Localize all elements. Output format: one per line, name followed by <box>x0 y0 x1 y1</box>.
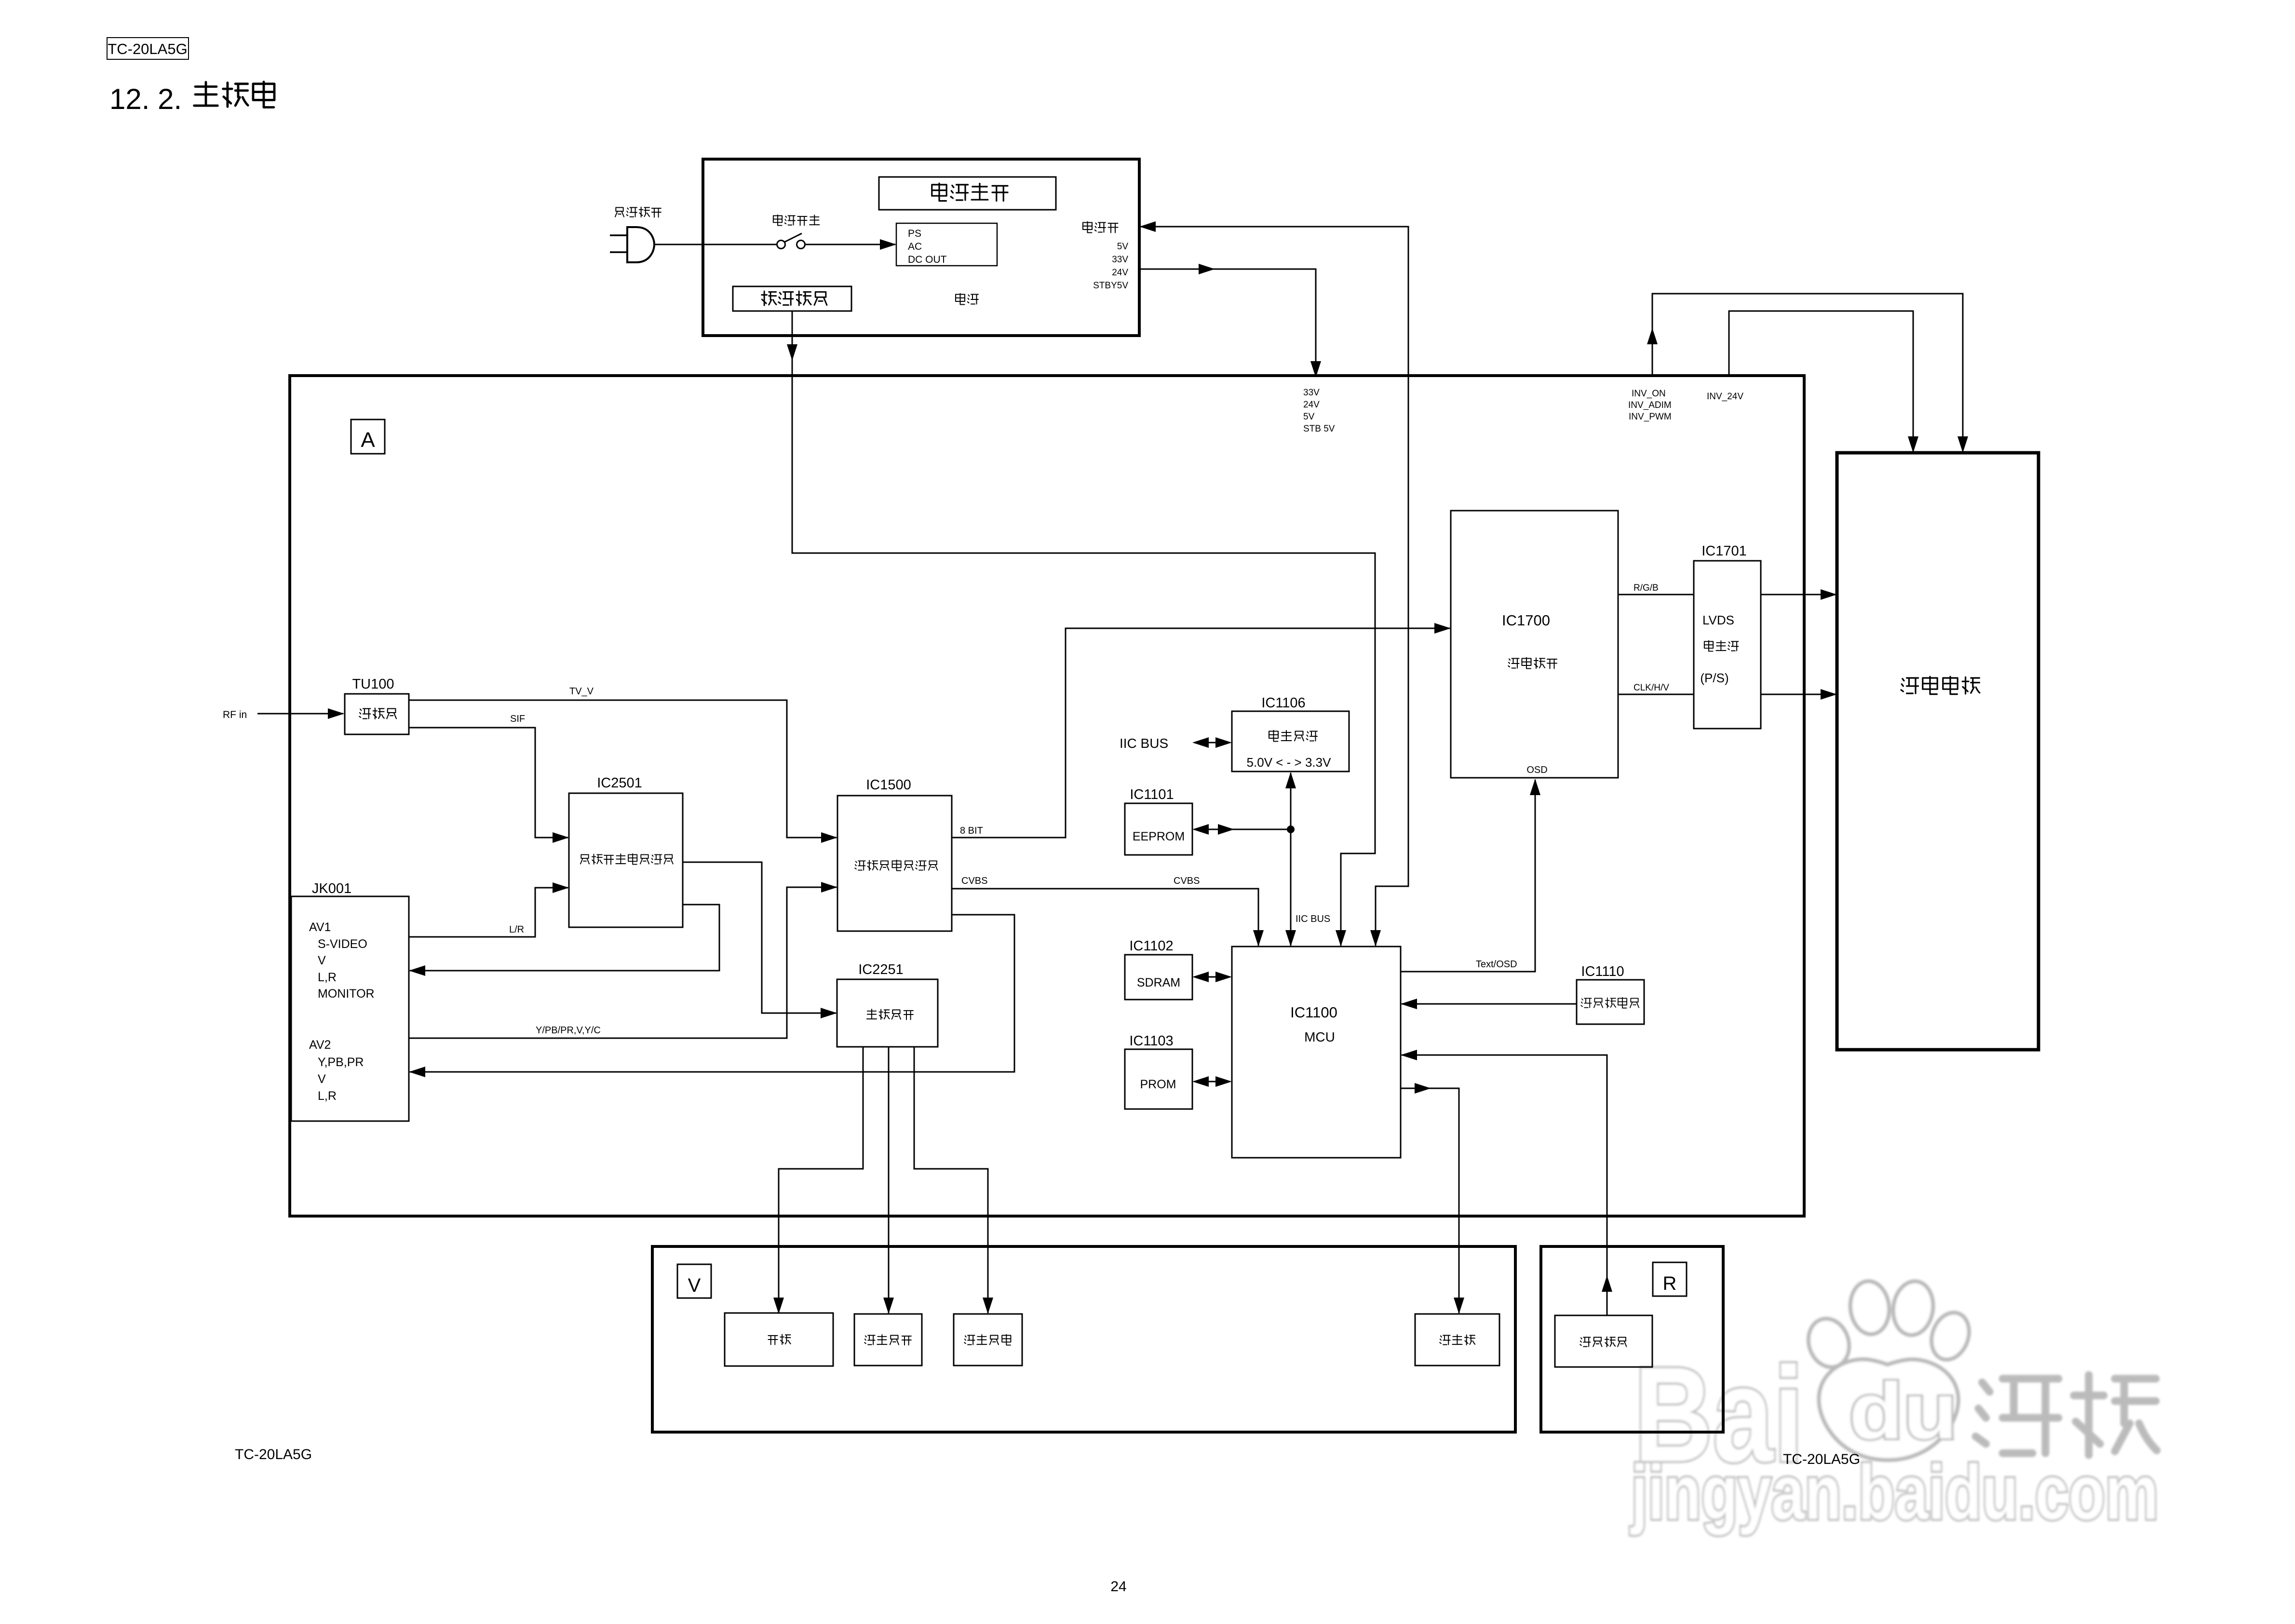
svg-text:IC2251: IC2251 <box>858 962 904 977</box>
SDRAM IC1102 box <box>1125 955 1192 1000</box>
svg-text:24V: 24V <box>1303 400 1320 410</box>
svg-text:IC1100: IC1100 <box>1290 1004 1337 1021</box>
svg-text:IC1701: IC1701 <box>1701 543 1747 559</box>
headphone box <box>725 1313 833 1366</box>
svg-text:IC1500: IC1500 <box>866 777 911 793</box>
svg-text:SIF: SIF <box>510 714 525 724</box>
svg-text:L,R: L,R <box>318 971 337 984</box>
svg-text:Text/OSD: Text/OSD <box>1476 959 1517 970</box>
LCD driver IC1700 box <box>1451 511 1618 778</box>
AC input label <box>615 207 624 217</box>
svg-text:33V: 33V <box>1112 255 1128 265</box>
IIC bus vertical <box>1290 773 1292 946</box>
wires IC2251 to speakers <box>779 1047 863 1313</box>
board R outer box <box>1541 1246 1723 1432</box>
EEPROM IC1101 box <box>1125 803 1192 855</box>
svg-text:OSD: OSD <box>1526 765 1547 775</box>
model label box TC-20LA5G <box>107 38 189 59</box>
wire audio IC2501 to IC2251 <box>683 862 836 1013</box>
svg-text:STB 5V: STB 5V <box>1303 424 1335 434</box>
wire CVBS to MCU <box>952 889 1258 946</box>
speaker right box <box>954 1314 1022 1366</box>
wire key control to MCU <box>792 311 1375 946</box>
wire AC plug to switch <box>654 244 776 245</box>
sound processor IC2501 box <box>569 793 683 927</box>
svg-text:SDRAM: SDRAM <box>1137 976 1180 989</box>
wire EEPROM to IIC <box>1201 829 1291 830</box>
svg-text:IC1103: IC1103 <box>1129 1033 1173 1049</box>
svg-text:S-VIDEO: S-VIDEO <box>318 937 367 951</box>
svg-text:CLK/H/V: CLK/H/V <box>1633 683 1669 693</box>
svg-text:(P/S): (P/S) <box>1700 671 1728 685</box>
wire switch to PS box <box>805 244 895 245</box>
svg-text:AV2: AV2 <box>309 1038 331 1052</box>
svg-text:JK001: JK001 <box>312 881 351 896</box>
svg-text:IC1102: IC1102 <box>1129 938 1173 954</box>
wire Text/OSD to IC1700 <box>1401 780 1535 972</box>
svg-text:jingyan.baidu.com: jingyan.baidu.com <box>1630 1449 2159 1535</box>
board A outer box <box>290 376 1804 1216</box>
wire power-on (MCU to PSU) <box>1140 227 1408 946</box>
svg-text:AC: AC <box>908 241 922 252</box>
svg-text:DC OUT: DC OUT <box>908 254 947 265</box>
LCD panel box <box>1837 453 2038 1050</box>
svg-text:INV_ADIM: INV_ADIM <box>1628 400 1672 410</box>
power label <box>956 294 965 305</box>
wire LVDS to panel upper <box>1761 594 1836 595</box>
tuner TU100 box <box>345 694 409 734</box>
board R tag box <box>1653 1262 1687 1296</box>
svg-text:R/G/B: R/G/B <box>1633 583 1659 593</box>
svg-text:L/R: L/R <box>509 924 524 935</box>
svg-text:L,R: L,R <box>318 1089 337 1103</box>
PROM IC1103 box <box>1125 1049 1192 1109</box>
svg-text:INV_PWM: INV_PWM <box>1629 412 1672 422</box>
wire voltage bundle to board A <box>1140 269 1316 377</box>
jack block JK001 box <box>291 896 409 1121</box>
svg-text:INV_24V: INV_24V <box>1707 392 1743 402</box>
board A tag box <box>351 420 385 454</box>
svg-text:IC2501: IC2501 <box>597 775 642 791</box>
wire SIF <box>409 728 568 838</box>
svg-text:PS: PS <box>908 228 921 239</box>
svg-text:CVBS: CVBS <box>1174 876 1200 886</box>
svg-text:24V: 24V <box>1112 268 1128 278</box>
wire INV_24V to panel <box>1729 311 1913 452</box>
wire R/G/B <box>1618 594 1694 595</box>
wire IR to MCU <box>1402 1055 1607 1315</box>
svg-text:Y,PB,PR: Y,PB,PR <box>318 1056 364 1069</box>
speaker left box <box>854 1314 922 1366</box>
svg-text:IC1110: IC1110 <box>1581 964 1624 979</box>
wire Y/PB/PR to IC1500 <box>409 887 837 1038</box>
wire temp sensor to MCU <box>1402 1003 1577 1005</box>
key control box <box>733 286 851 311</box>
wire RF in <box>257 713 343 715</box>
svg-text:CVBS: CVBS <box>961 876 987 886</box>
svg-text:TU100: TU100 <box>352 677 394 692</box>
svg-text:33V: 33V <box>1303 388 1320 398</box>
svg-text:TV_V: TV_V <box>569 686 594 697</box>
svg-text:IC1101: IC1101 <box>1130 787 1174 802</box>
power switch symbol <box>777 241 785 249</box>
IR control box <box>1555 1315 1652 1367</box>
power switch label <box>773 215 782 226</box>
svg-text:V: V <box>318 954 326 967</box>
wire monitor out IC2501 to JK001 <box>410 905 719 971</box>
svg-text:Y/PB/PR,V,Y/C: Y/PB/PR,V,Y/C <box>536 1025 601 1036</box>
svg-text:du: du <box>1849 1367 1957 1455</box>
svg-text:MCU: MCU <box>1304 1029 1335 1044</box>
svg-text:24: 24 <box>1110 1579 1126 1595</box>
wire SDRAM to MCU <box>1201 976 1225 978</box>
power-on label <box>1083 222 1092 233</box>
LVDS IC1701 box <box>1694 561 1761 729</box>
watermark chars jingyan <box>1976 1379 2059 1453</box>
video processor IC1500 box <box>837 796 952 931</box>
svg-text:A: A <box>361 428 375 452</box>
wire MCU to indicator <box>1401 1088 1459 1313</box>
power unit title box <box>879 177 1056 210</box>
svg-text:IC1700: IC1700 <box>1502 612 1550 629</box>
watermark paw toes <box>1802 1313 1855 1372</box>
svg-text:V: V <box>318 1072 326 1086</box>
IIC junction dot <box>1287 826 1295 833</box>
power supply outer box <box>703 159 1139 336</box>
wire CLK/H/V <box>1618 694 1694 695</box>
svg-text:TC-20LA5G: TC-20LA5G <box>235 1447 312 1462</box>
wire L/R to IC2501 <box>409 888 568 937</box>
svg-text:R: R <box>1663 1273 1677 1294</box>
watermark paw pad <box>1819 1359 1958 1460</box>
svg-text:IC1106: IC1106 <box>1261 695 1305 711</box>
AC plug icon <box>610 235 627 252</box>
svg-text:STBY5V: STBY5V <box>1093 281 1128 291</box>
wire PROM to MCU <box>1201 1081 1225 1083</box>
board V tag box <box>677 1264 711 1298</box>
svg-text:IIC BUS: IIC BUS <box>1296 914 1330 924</box>
svg-text:LVDS: LVDS <box>1702 613 1734 627</box>
wire AV2 return IC1500 to JK001 <box>410 915 1014 1072</box>
wire TV_V <box>409 700 837 838</box>
MCU IC1100 box <box>1232 947 1401 1158</box>
temp sensor IC1110 box <box>1577 980 1644 1024</box>
wire 8BIT to IC1700 <box>952 628 1450 838</box>
svg-text:TC-20LA5G: TC-20LA5G <box>108 41 187 57</box>
svg-text:12. 2.: 12. 2. <box>109 83 182 115</box>
audio amp IC2251 box <box>837 979 938 1047</box>
svg-text:IIC BUS: IIC BUS <box>1120 736 1168 751</box>
board V outer box <box>652 1246 1515 1432</box>
svg-text:V: V <box>688 1275 701 1296</box>
svg-text:5.0V < - > 3.3V: 5.0V < - > 3.3V <box>1247 755 1332 770</box>
wire LVDS to panel lower <box>1761 694 1836 695</box>
PS AC DCOUT box <box>896 223 997 266</box>
svg-text:TC-20LA5G: TC-20LA5G <box>1783 1451 1860 1467</box>
svg-text:5V: 5V <box>1303 412 1315 422</box>
svg-text:AV1: AV1 <box>309 920 331 934</box>
level shifter IC1106 box <box>1232 711 1349 771</box>
svg-text:INV_ON: INV_ON <box>1632 389 1666 399</box>
svg-text:RF in: RF in <box>223 709 247 720</box>
svg-text:EEPROM: EEPROM <box>1133 830 1185 843</box>
wire INV_ON/ADIM/PWM to panel <box>1652 294 1963 452</box>
svg-text:5V: 5V <box>1117 242 1129 252</box>
svg-text:PROM: PROM <box>1140 1078 1176 1091</box>
svg-text:8 BIT: 8 BIT <box>960 826 983 836</box>
svg-text:MONITOR: MONITOR <box>318 987 375 1001</box>
indicator box <box>1415 1314 1499 1366</box>
